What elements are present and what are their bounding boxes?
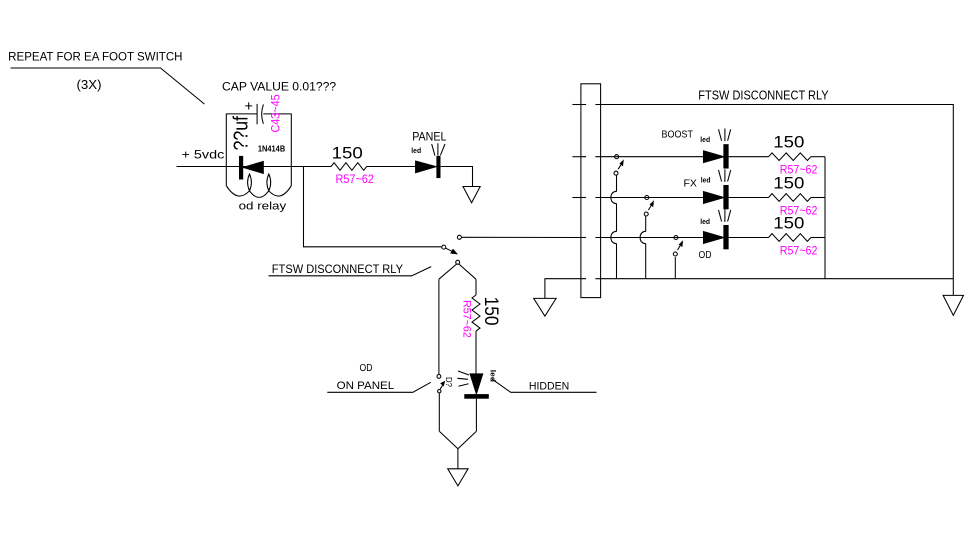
wire: led to bottom node — [475, 399, 477, 432]
wire: left branch down — [438, 279, 440, 374]
capacitor C43~45 plates — [256, 104, 258, 124]
switch row 1 contact on line — [615, 155, 619, 159]
relay block left stub 2 — [572, 156, 581, 158]
ground (bottom center) — [448, 469, 468, 486]
svg-text:CAP VALUE 0.01???: CAP VALUE 0.01??? — [222, 82, 336, 94]
svg-text:(3X): (3X) — [77, 78, 102, 92]
ground (block left) — [534, 298, 556, 316]
relay coil loop petal 2 — [267, 174, 271, 191]
relay block left stub 1 — [572, 104, 581, 106]
svg-text:HIDDEN: HIDDEN — [529, 380, 569, 392]
svg-text:R57~62: R57~62 — [780, 245, 818, 257]
wire: led to resistor row 2 — [728, 197, 769, 199]
wire: inner right bus — [824, 157, 826, 279]
switch S5 contact top — [437, 375, 441, 379]
wire: bottom diamond — [439, 431, 476, 449]
wire: stem to ground — [457, 449, 459, 469]
diode D1 1N4148 — [239, 156, 243, 180]
resistor R57~62 hidden 150 (vertical) — [472, 295, 480, 331]
wire: resistor to LED — [367, 166, 416, 168]
wire: row 3 (OD) — [601, 237, 704, 239]
svg-text:R57~62: R57~62 — [336, 174, 374, 186]
wire: row 2 (FX) — [601, 197, 704, 199]
wire: row2 switch to bus (hops row 3) — [640, 216, 646, 279]
wire: switch to relay block row 3 — [461, 236, 581, 238]
switch row 2 contact on line — [645, 196, 649, 200]
svg-text:ON PANEL: ON PANEL — [337, 380, 395, 392]
wire: box to resistor — [291, 166, 331, 168]
resistor R57~62 row 3 150 — [769, 234, 811, 242]
svg-text:led: led — [488, 370, 497, 383]
switch row 2 actuator arrow — [648, 205, 651, 211]
wire: 5vdc feed — [177, 166, 227, 168]
wire: right branch upper — [475, 279, 477, 295]
relay K1 od relay box outline — [226, 114, 257, 186]
svg-text:150: 150 — [773, 214, 804, 233]
svg-text:150: 150 — [773, 133, 804, 152]
resistor R57~62 row 1 150 — [769, 153, 811, 161]
svg-text:led: led — [411, 146, 421, 155]
switch S1 common contact bottom — [456, 260, 460, 264]
capacitor plus sign — [245, 102, 252, 109]
svg-text:OD: OD — [360, 362, 373, 374]
relay block pin ticks row 2 — [581, 156, 601, 158]
wire: title net top — [601, 105, 954, 279]
svg-text:150: 150 — [332, 143, 363, 162]
svg-text:od relay: od relay — [239, 201, 287, 213]
switch row 1 lower contact — [614, 171, 618, 175]
relay block FTSW disconnect — [581, 84, 601, 298]
node: switch common to branch — [439, 264, 476, 279]
ground (panel led) — [463, 187, 480, 203]
wire: block to left ground — [545, 279, 581, 299]
wire: resistor to bus row 2 — [811, 197, 825, 199]
relay coil scallop bottom — [226, 186, 291, 198]
resistor R57~62 panel 150 — [331, 163, 367, 171]
svg-text:D?: D? — [444, 377, 453, 387]
svg-text:1N414B: 1N414B — [258, 145, 285, 154]
wire: resistor to bus row 3 — [811, 237, 825, 239]
switch S5 contact bottom — [438, 390, 441, 393]
switch S1 actuator arrow — [446, 248, 453, 252]
relay block pin ticks row 5 — [581, 278, 601, 280]
LED D panel — [416, 143, 445, 178]
switch row 3 lower contact — [673, 252, 677, 256]
LED hidden (pointing down) — [457, 371, 489, 399]
wire: right ground stem — [952, 279, 954, 296]
svg-text:R57~62: R57~62 — [460, 300, 472, 338]
svg-text:PANEL: PANEL — [412, 131, 447, 143]
svg-text:150: 150 — [480, 297, 501, 326]
svg-text:C43~45: C43~45 — [271, 94, 283, 132]
svg-text:REPEAT FOR EA FOOT SWITCH: REPEAT FOR EA FOOT SWITCH — [8, 52, 182, 64]
relay block left stub 3 — [572, 197, 581, 199]
switch row 3 actuator arrow — [678, 245, 681, 251]
wire: led to resistor row 1 — [728, 156, 769, 158]
LED row 2 — [704, 169, 731, 209]
wire: row 1 (BOOST) — [601, 156, 704, 158]
svg-text:OD: OD — [699, 249, 712, 261]
svg-text:+ 5vdc: + 5vdc — [182, 148, 225, 162]
svg-text:led: led — [701, 176, 711, 185]
wire: left branch lower — [438, 393, 440, 431]
svg-text:FTSW DISCONNECT RLY: FTSW DISCONNECT RLY — [272, 262, 403, 276]
switch row 2 lower contact — [644, 212, 648, 216]
wire: drop from main to switch — [304, 167, 442, 247]
LED row 3 — [704, 209, 731, 249]
relay block pin ticks row 4 — [581, 237, 601, 239]
switch row 1 actuator arrow — [618, 164, 621, 170]
wire through relay box — [226, 166, 291, 168]
svg-text:FX: FX — [684, 178, 697, 190]
svg-text:BOOST: BOOST — [662, 129, 694, 141]
relay block pin ticks row 3 — [581, 197, 601, 199]
svg-text:FTSW DISCONNECT RLY: FTSW DISCONNECT RLY — [698, 89, 829, 103]
wire: resistor to led — [475, 331, 477, 374]
svg-text:??uf: ??uf — [230, 116, 252, 151]
note underline leader — [11, 68, 205, 104]
wire: LED to ground — [441, 167, 473, 187]
wire: row1 switch to bus (hops rows 2,3) — [611, 175, 617, 279]
wire: resistor to bus row 1 — [811, 156, 825, 158]
switch S1 throw contact top — [457, 235, 461, 239]
wire: led to resistor row 3 — [728, 237, 769, 239]
relay coil loop petal 1 — [248, 174, 252, 191]
switch S1 pole contact — [442, 245, 446, 249]
wire: bottom bus — [601, 278, 954, 280]
LED row 1 — [704, 129, 731, 169]
ground (bottom right) — [943, 295, 963, 315]
relay block pin ticks row 1 — [581, 104, 601, 106]
svg-text:led: led — [700, 217, 710, 226]
switch row 3 contact on line — [674, 236, 678, 240]
resistor R57~62 row 2 150 — [769, 194, 811, 202]
wire: row3 switch to bus — [674, 257, 676, 279]
svg-text:led: led — [700, 135, 710, 144]
switch S5 actuator arrow — [440, 385, 443, 390]
svg-text:150: 150 — [773, 174, 804, 193]
